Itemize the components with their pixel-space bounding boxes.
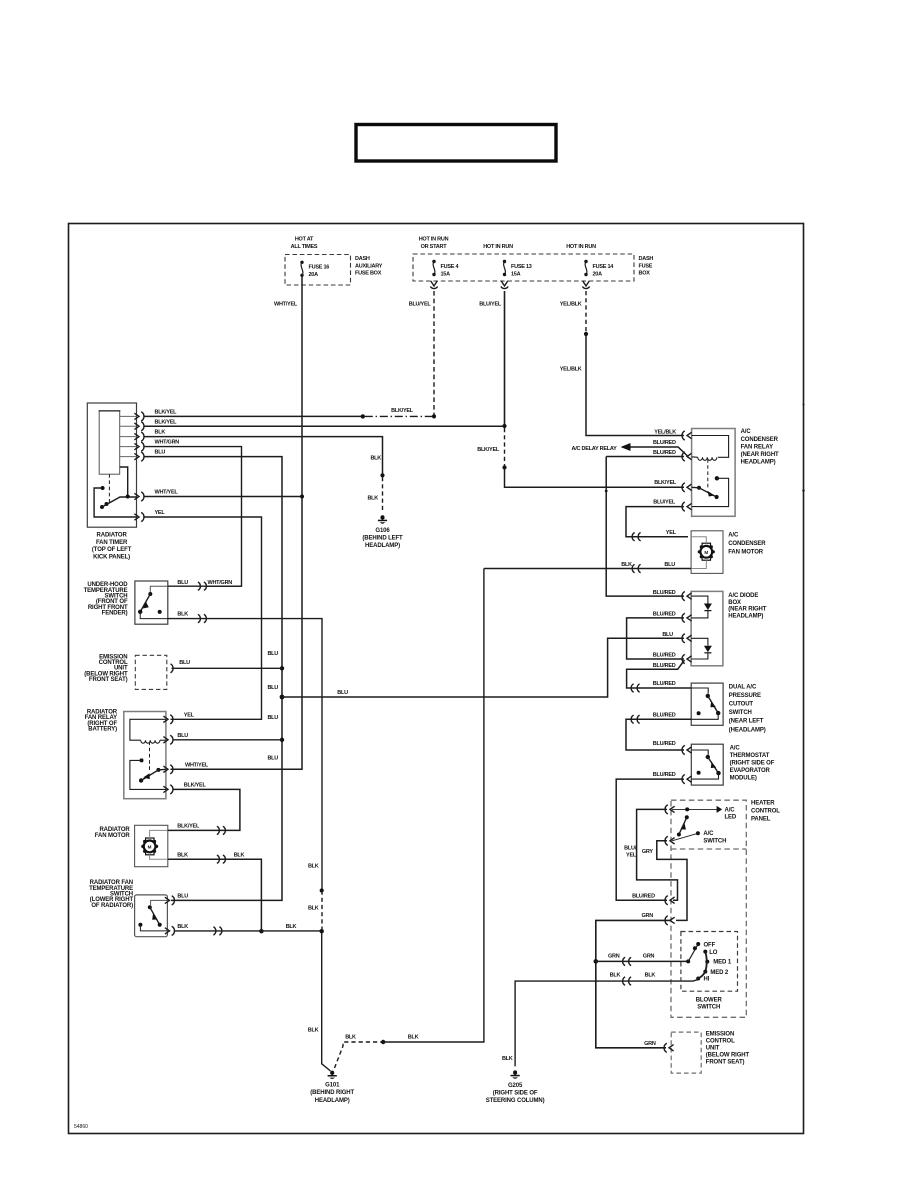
svg-text:HEADLAMP): HEADLAMP): [315, 1098, 350, 1104]
radiator fan temperature switch box: [89, 880, 167, 937]
timer internal switch: [94, 467, 136, 517]
timer pin 3: [134, 432, 144, 441]
svg-text:(NEAR RIGHT: (NEAR RIGHT: [741, 452, 779, 458]
svg-text:ALL TIMES: ALL TIMES: [291, 244, 318, 250]
svg-text:FAN TIMER: FAN TIMER: [96, 540, 128, 546]
wire BLK timer pin3 to ground G106: [144, 430, 385, 512]
svg-text:54860: 54860: [74, 1124, 88, 1130]
svg-text:OR START: OR START: [421, 244, 448, 250]
svg-text:HOT IN RUN: HOT IN RUN: [566, 244, 596, 250]
heater panel pin BLU/RED: [665, 896, 675, 905]
fuse box: dash fuse box: [413, 237, 653, 281]
diagram frame: [69, 224, 804, 1134]
svg-text:M: M: [148, 845, 152, 850]
A/C relay armature link: [707, 459, 709, 489]
wire BLK dashed branch from G101 to junction: [335, 569, 484, 1069]
svg-text:BLU: BLU: [664, 562, 675, 568]
svg-text:CONDENSER: CONDENSER: [728, 541, 766, 547]
svg-text:A/C: A/C: [728, 532, 739, 538]
svg-text:BLU: BLU: [177, 894, 188, 900]
svg-text:(RIGHT SIDE OF: (RIGHT SIDE OF: [730, 761, 775, 767]
svg-text:BLU/: BLU/: [624, 846, 637, 852]
svg-text:FAN MOTOR: FAN MOTOR: [728, 550, 764, 556]
svg-text:YEL: YEL: [155, 510, 166, 516]
svg-text:YEL/BLK: YEL/BLK: [560, 301, 582, 307]
svg-text:G205: G205: [508, 1083, 523, 1089]
svg-text:(NEAR RIGHT: (NEAR RIGHT: [728, 607, 766, 613]
svg-text:BLK: BLK: [621, 562, 632, 568]
diode box pin 1: [682, 592, 692, 601]
svg-text:BLU/RED: BLU/RED: [653, 612, 676, 618]
A/C condenser fan motor box: [691, 531, 766, 574]
svg-text:15A: 15A: [441, 272, 451, 278]
wire BLU/YEL relay to YEL condenser motor: [626, 500, 688, 541]
A/C relay pin YEL/BLK: [682, 431, 692, 440]
diode box pin 4: [682, 654, 692, 663]
fuse 14 20A: [584, 260, 614, 278]
fuse 16 20A: [300, 261, 329, 279]
svg-text:A/C: A/C: [725, 807, 736, 813]
svg-text:BLK/YEL: BLK/YEL: [177, 824, 200, 830]
svg-text:BLK: BLK: [502, 1056, 513, 1062]
connector below fuse 4: [430, 281, 437, 289]
svg-text:FAN RELAY: FAN RELAY: [741, 444, 773, 450]
svg-text:AUXILIARY: AUXILIARY: [355, 263, 383, 269]
svg-text:BLK: BLK: [610, 973, 621, 979]
svg-text:DASH: DASH: [639, 256, 654, 262]
svg-text:BLK: BLK: [408, 1035, 419, 1041]
radiator fan relay coil: [130, 719, 166, 743]
wire BLK ground bus to G101: [308, 863, 331, 1071]
wire BLK from under-hood switch to ground bus: [168, 612, 322, 891]
timer internal leads: [120, 416, 137, 456]
emission control unit dashed box (below right front seat): [84, 654, 167, 689]
fuse 4 15A: [432, 260, 459, 278]
A/C LED indicator: [672, 806, 737, 821]
blower switch dashed box: [681, 932, 738, 1011]
timer pin 4: [134, 442, 144, 451]
A/C relay pin BLK/YEL: [682, 483, 692, 492]
svg-text:BLU: BLU: [177, 580, 188, 586]
A/C thermostat box: [691, 744, 774, 785]
fan relay pin WHT/YEL: [163, 765, 173, 774]
svg-text:BLK/YEL: BLK/YEL: [391, 408, 414, 414]
svg-text:GRN: GRN: [642, 913, 654, 919]
svg-text:HOT AT: HOT AT: [295, 237, 314, 243]
thermostat pin 1: [682, 745, 692, 754]
svg-text:HOT IN RUN: HOT IN RUN: [419, 237, 449, 243]
svg-text:FUSE 4: FUSE 4: [441, 264, 460, 270]
svg-text:HI: HI: [704, 976, 710, 982]
dual A/C pressure cutout switch box: [691, 683, 766, 733]
fan relay pin BLK/YEL: [163, 785, 173, 794]
svg-text:BLU/RED: BLU/RED: [653, 712, 676, 718]
wire BLU/RED thermostat to heater control panel: [616, 772, 684, 900]
svg-text:M: M: [704, 550, 708, 555]
wire BLU emission control unit to BLU bus: [172, 660, 283, 668]
emission control unit pin: [171, 664, 174, 673]
svg-text:WHT/YEL: WHT/YEL: [155, 490, 179, 496]
svg-text:FUSE: FUSE: [639, 263, 653, 269]
svg-text:HEATER: HEATER: [751, 801, 775, 807]
svg-text:A/C: A/C: [741, 429, 752, 435]
svg-text:LO: LO: [709, 950, 718, 956]
svg-text:BLU/RED: BLU/RED: [653, 440, 676, 446]
svg-text:BOX: BOX: [728, 600, 741, 606]
wire BLU / WHT/GRN from under-hood switch: [168, 580, 242, 591]
heater panel pin A/C switch (GRY): [665, 836, 675, 845]
diode box pin 3: [682, 634, 692, 643]
heater panel pin GRN: [665, 916, 675, 925]
svg-text:20A: 20A: [593, 272, 603, 278]
svg-text:HEADLAMP): HEADLAMP): [365, 543, 400, 549]
svg-text:BLK: BLK: [308, 863, 319, 869]
svg-text:BLK/YEL: BLK/YEL: [155, 410, 178, 416]
svg-text:RADIATOR: RADIATOR: [97, 533, 128, 539]
timer pin 1: [134, 412, 144, 421]
svg-text:15A: 15A: [511, 272, 521, 278]
svg-text:YEL/BLK: YEL/BLK: [560, 366, 582, 372]
wire BLK temp switch row to ground bus: [174, 924, 322, 935]
A/C relay pin BLU/RED: [682, 452, 692, 461]
ground G106: [362, 515, 403, 549]
svg-text:HEADLAMP): HEADLAMP): [728, 613, 763, 619]
fan relay pin BLU: [163, 735, 173, 744]
svg-text:20A: 20A: [309, 272, 319, 278]
svg-text:BLU/RED: BLU/RED: [653, 741, 676, 747]
svg-text:GRN: GRN: [643, 954, 655, 960]
wire BLU/RED pressure switch to A/C thermostat: [626, 712, 691, 750]
svg-text:FRONT SEAT): FRONT SEAT): [89, 677, 128, 683]
connector below fuse 13: [501, 281, 508, 289]
svg-text:EVAPORATOR: EVAPORATOR: [730, 768, 771, 774]
svg-text:THERMOSTAT: THERMOSTAT: [730, 753, 770, 759]
wire BLU relay to bus: [173, 733, 283, 740]
wire BLU / BLK condenser motor to ground run: [484, 562, 691, 573]
svg-text:CONDENSER: CONDENSER: [741, 437, 779, 443]
svg-text:GRN: GRN: [644, 1041, 656, 1047]
svg-text:WHT/GRN: WHT/GRN: [155, 440, 180, 446]
svg-text:BLK: BLK: [234, 852, 245, 858]
wire BLU/YEL from fuse 13 down, becomes BLK/YEL to A/C condenser fan relay: [477, 291, 684, 492]
radiator fan timer box: [87, 403, 136, 561]
connector below fuse 14: [582, 281, 589, 289]
svg-text:BLOWER: BLOWER: [696, 997, 723, 1003]
svg-text:BLU/YEL: BLU/YEL: [409, 301, 432, 307]
svg-text:BOX: BOX: [639, 271, 651, 277]
pressure switch internals: [691, 688, 720, 719]
svg-text:BLU: BLU: [179, 660, 190, 666]
svg-text:DUAL A/C: DUAL A/C: [729, 684, 757, 690]
temp switch pin BLU: [165, 896, 175, 905]
svg-text:(TOP OF LEFT: (TOP OF LEFT: [92, 547, 132, 553]
svg-text:G106: G106: [375, 528, 390, 534]
svg-text:FUSE 13: FUSE 13: [511, 264, 532, 270]
radiator fan motor box: [95, 825, 168, 866]
A/C diode box: [691, 591, 767, 665]
wire BLK/YEL timer pin2 to fuse13 junction: [144, 419, 505, 426]
svg-text:YEL: YEL: [666, 530, 677, 536]
svg-text:WHT/YEL: WHT/YEL: [274, 301, 298, 307]
svg-text:A/C DELAY RELAY: A/C DELAY RELAY: [572, 446, 618, 452]
svg-text:BLU: BLU: [177, 733, 188, 739]
svg-text:WHT/GRN: WHT/GRN: [208, 580, 233, 586]
svg-text:YEL: YEL: [626, 852, 637, 858]
svg-text:BLU/RED: BLU/RED: [653, 450, 676, 456]
svg-text:FUSE 14: FUSE 14: [593, 264, 615, 270]
svg-text:EMISSION: EMISSION: [706, 1031, 734, 1037]
svg-text:OFF: OFF: [704, 942, 716, 948]
A/C condenser fan motor symbol: [691, 537, 715, 569]
thermostat internals: [691, 750, 720, 779]
svg-text:BLK/YEL: BLK/YEL: [477, 447, 500, 453]
svg-text:BLU/RED: BLU/RED: [653, 663, 676, 669]
wire BLK/YEL relay to radiator fan motor: [173, 783, 240, 831]
svg-text:BLK: BLK: [177, 852, 188, 858]
svg-text:(HEADLAMP): (HEADLAMP): [729, 727, 766, 733]
thermostat pin 2: [682, 775, 692, 784]
svg-text:BLU/RED: BLU/RED: [653, 772, 676, 778]
svg-text:CONTROL: CONTROL: [706, 1038, 735, 1044]
wire BLU/YEL jog to A/C LED pin: [624, 809, 677, 900]
diode 2: [691, 638, 712, 659]
svg-text:YEL/BLK: YEL/BLK: [654, 430, 676, 436]
svg-text:GRN: GRN: [608, 954, 620, 960]
A/C relay coil: [692, 436, 729, 461]
svg-text:FENDER): FENDER): [102, 611, 128, 617]
radiator fan relay box: [85, 710, 166, 799]
svg-text:BLU/RED: BLU/RED: [653, 681, 676, 687]
timer pin 6: [134, 492, 144, 501]
svg-text:CONTROL: CONTROL: [751, 809, 780, 815]
svg-text:(BEHIND RIGHT: (BEHIND RIGHT: [310, 1090, 354, 1096]
svg-text:BLU/YEL: BLU/YEL: [479, 301, 502, 307]
wire BLK motor to junction: [168, 852, 264, 933]
svg-text:BLU: BLU: [267, 651, 278, 657]
timer pin 5: [134, 452, 144, 461]
svg-text:BLU: BLU: [267, 685, 278, 691]
wire BLU/YEL from fuse 4 (dashed) to BLK/YEL junction: [409, 291, 436, 419]
svg-text:BLK: BLK: [177, 612, 188, 618]
svg-text:BLK: BLK: [367, 496, 378, 502]
radiator fan relay switch: [130, 758, 166, 789]
heater control panel dashed box: [671, 800, 746, 1017]
svg-text:SWITCH: SWITCH: [729, 710, 752, 716]
svg-text:BATTERY): BATTERY): [88, 727, 117, 733]
temp switch pin BLK: [165, 926, 175, 935]
A/C switch: [672, 815, 726, 844]
svg-text:BLK: BLK: [308, 1028, 319, 1034]
wire BLU/RED arrow to A/C delay relay: [572, 440, 688, 457]
svg-text:PANEL: PANEL: [751, 817, 771, 823]
svg-text:LED: LED: [725, 815, 737, 821]
svg-text:(BELOW RIGHT: (BELOW RIGHT: [706, 1052, 750, 1058]
svg-text:BLK: BLK: [155, 430, 166, 436]
svg-text:SWITCH: SWITCH: [703, 838, 726, 844]
svg-text:BLU: BLU: [267, 715, 278, 721]
svg-text:BLK: BLK: [645, 973, 656, 979]
svg-text:MODULE): MODULE): [730, 776, 757, 782]
svg-text:BLK: BLK: [370, 455, 381, 461]
svg-text:BLU/RED: BLU/RED: [653, 653, 676, 659]
wire BLU timer pin5 bus down left side: [144, 450, 285, 901]
svg-text:SWITCH: SWITCH: [697, 1004, 720, 1010]
border registration marks: [802, 403, 804, 405]
under-hood temperature switch box: [84, 581, 168, 624]
wire BLU/RED diode pin4 to pressure cutout switch: [627, 660, 692, 692]
svg-text:PRESSURE: PRESSURE: [729, 693, 761, 699]
wire WHT/GRN timer pin4 to under-hood switch: [144, 440, 242, 587]
svg-text:BLU/RED: BLU/RED: [653, 590, 676, 596]
svg-text:BLU/YEL: BLU/YEL: [653, 500, 676, 506]
svg-text:A/C: A/C: [703, 831, 714, 837]
wire BLU/RED from A/C relay coil down to diode box pin 1: [606, 450, 684, 596]
A/C condenser fan relay box: [692, 429, 779, 517]
svg-text:CUTOUT: CUTOUT: [729, 702, 754, 708]
svg-text:HOT IN RUN: HOT IN RUN: [483, 244, 513, 250]
fan relay pin YEL: [163, 715, 173, 724]
svg-text:BLK/YEL: BLK/YEL: [654, 480, 677, 486]
svg-text:BLK: BLK: [286, 924, 297, 930]
ground G101: [310, 1071, 354, 1104]
svg-text:FUSE 16: FUSE 16: [309, 265, 330, 271]
svg-text:BLU: BLU: [155, 450, 166, 456]
svg-text:BLU: BLU: [662, 632, 673, 638]
wire BLU/RED diode pin2 to pin4: [627, 612, 684, 659]
wire YEL timer pin7 to radiator fan relay: [144, 510, 262, 719]
svg-text:BLU: BLU: [337, 690, 348, 696]
svg-text:FAN MOTOR: FAN MOTOR: [95, 833, 131, 839]
svg-text:BLU/RED: BLU/RED: [632, 894, 655, 900]
diode 1: [691, 596, 712, 618]
svg-text:FRONT SEAT): FRONT SEAT): [706, 1059, 745, 1065]
svg-text:(NEAR LEFT: (NEAR LEFT: [729, 719, 764, 725]
svg-text:FUSE BOX: FUSE BOX: [355, 271, 382, 277]
wire WHT/YEL from fuse 16 down to timer row and fan relay: [171, 276, 305, 770]
A/C relay switch: [692, 476, 729, 507]
svg-text:MED 2: MED 2: [710, 970, 729, 976]
svg-text:OF RADIATOR): OF RADIATOR): [91, 903, 133, 909]
svg-text:(BEHIND LEFT: (BEHIND LEFT: [362, 535, 403, 541]
wire BLK blower switch to ground G205: [502, 973, 698, 1067]
svg-text:BLK/YEL: BLK/YEL: [184, 783, 207, 789]
svg-text:WHT/YEL: WHT/YEL: [185, 762, 209, 768]
temp switch internals: [138, 900, 167, 931]
wire BLK/YEL motor row connector: [168, 824, 226, 835]
wire GRN heater panel to blower switch and ECU: [594, 913, 689, 1048]
svg-text:BLK: BLK: [345, 1035, 356, 1041]
title box: [356, 125, 556, 162]
svg-text:HEADLAMP): HEADLAMP): [741, 460, 776, 466]
fuse box: dash auxiliary fuse box: [285, 237, 383, 285]
svg-text:A/C DIODE: A/C DIODE: [728, 593, 758, 599]
wire BLK/YEL timer pin1 with dash-dot run: [144, 408, 433, 419]
svg-text:KICK PANEL): KICK PANEL): [93, 555, 130, 561]
wire BLU diode pin3 to BLU bus: [282, 632, 684, 697]
svg-text:BLK/YEL: BLK/YEL: [155, 419, 178, 425]
fuse 13 15A: [503, 260, 532, 278]
wire WHT/YEL timer pin6 row: [144, 490, 301, 497]
svg-text:BLU: BLU: [267, 756, 278, 762]
radiator fan motor symbol: [141, 830, 168, 859]
heater panel pin A/C LED: [665, 805, 675, 814]
svg-text:DASH: DASH: [355, 256, 370, 262]
wire YEL/BLK from fuse 14 down to A/C condenser fan relay: [560, 291, 684, 436]
svg-text:(RIGHT SIDE OF: (RIGHT SIDE OF: [493, 1091, 538, 1097]
blower switch contacts: [686, 942, 732, 982]
svg-text:BLK: BLK: [308, 906, 319, 912]
svg-text:UNIT: UNIT: [706, 1045, 720, 1051]
svg-text:BLK: BLK: [177, 924, 188, 930]
svg-text:YEL: YEL: [184, 712, 195, 718]
radiator fan relay armature link: [149, 742, 151, 771]
emission control unit dashed box (below right front seat): [671, 1031, 749, 1073]
under-hood switch internals: [138, 586, 168, 618]
ground G205: [486, 1070, 545, 1104]
emission control unit pin: [664, 1043, 674, 1052]
diode box pin 2: [682, 613, 692, 622]
svg-text:STEERING COLUMN): STEERING COLUMN): [486, 1098, 545, 1104]
svg-text:A/C: A/C: [730, 746, 741, 752]
svg-text:MED 1: MED 1: [713, 960, 732, 966]
wire GRY jog outside panel: [642, 841, 687, 921]
timer pin 7: [134, 512, 144, 521]
timer pin 2: [134, 422, 144, 431]
svg-text:GRY: GRY: [642, 849, 654, 855]
A/C relay pin BLU/YEL: [682, 502, 692, 511]
svg-text:G101: G101: [325, 1083, 340, 1089]
